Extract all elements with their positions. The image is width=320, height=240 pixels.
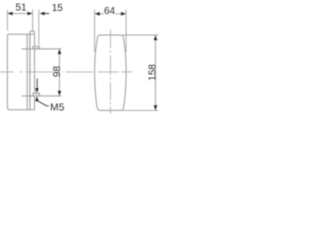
dim 158 line [155, 35, 157, 110]
svg-text:15: 15 [52, 3, 64, 14]
svg-text:64: 64 [104, 6, 116, 17]
dim 15 arrow tail [45, 13, 49, 15]
svg-text:51: 51 [15, 3, 27, 14]
dim 15 arrow [40, 12, 45, 16]
side view mounting plate [30, 31, 35, 110]
dim 64 left arrow [95, 12, 100, 16]
stud bottom extension line (98 bottom) [22, 95, 62, 97]
stud M5 top [33, 47, 39, 49]
dim 64 right arrow [121, 12, 126, 16]
M5 top arrow [36, 79, 38, 88]
stud M5 bottom [33, 93, 39, 96]
dim 64 left extension line [94, 10, 96, 52]
dim 158 bottom arrow [154, 105, 158, 110]
dim 64 right extension line [125, 10, 127, 52]
dim 64 line [95, 13, 104, 15]
M5 leader line [38, 101, 49, 106]
dim 51 right extension line [32, 10, 34, 32]
dim 51 right arrow [27, 12, 32, 16]
front view body outline [95, 35, 126, 110]
front view vertical centerline [109, 30, 111, 114]
svg-text:M5: M5 [50, 102, 65, 113]
dim 98 bottom arrow [58, 91, 62, 96]
horizontal centerline axis [0, 71, 132, 73]
dim 51 left extension line [6, 10, 8, 31]
dim 158 top extension line [123, 34, 159, 36]
dim 98 top arrow [58, 49, 62, 54]
dim 98 line [58, 49, 60, 96]
side view body outline [7, 34, 33, 110]
M5 bottom arrow [35, 96, 39, 101]
svg-text:158: 158 [147, 64, 158, 81]
dim 51 line [7, 13, 32, 15]
dim 158 bottom extension line [122, 109, 158, 111]
svg-text:98: 98 [52, 66, 63, 78]
dim 158 top arrow [154, 35, 158, 40]
dim 51 left arrow [8, 12, 13, 16]
dim 15 extension line [38, 10, 40, 46]
stud top extension line (98 top) [22, 48, 62, 50]
side view inner back line [26, 34, 28, 110]
